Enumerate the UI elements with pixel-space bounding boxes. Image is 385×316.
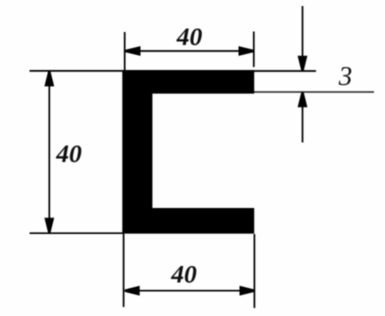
wire: thickness dimension upper leader line [302, 6, 304, 57]
arrowhead: left dimension up arrow [44, 71, 54, 86]
wire: left dimension top extension line [30, 70, 123, 72]
wire: thickness top extension line [254, 70, 316, 72]
wire: left dimension bottom extension line [30, 232, 125, 234]
svg-text:40: 40 [170, 260, 197, 289]
wire: thickness bottom extension line [254, 91, 374, 93]
svg-text:40: 40 [55, 139, 82, 168]
svg-text:3: 3 [338, 61, 353, 91]
arrowhead: left dimension down arrow [44, 218, 54, 233]
wire: bottom dimension left extension line [123, 234, 125, 307]
wire: top dimension right extension line [253, 32, 255, 68]
wire: top dimension line [126, 50, 253, 52]
wire: thickness dimension lower leader line [302, 106, 304, 143]
arrowhead: thickness down arrow [298, 56, 308, 71]
arrowhead: bottom dimension left arrow [125, 286, 140, 296]
wire: bottom dimension right extension line [253, 234, 255, 308]
arrowhead: thickness up arrow [298, 92, 308, 107]
wire: left dimension line [48, 72, 50, 232]
wire: top dimension left extension line [124, 32, 126, 70]
channel profile: black C-section 40x40x3 [122, 70, 254, 234]
svg-text:40: 40 [176, 22, 203, 51]
arrowhead: top dimension right arrow [239, 46, 254, 56]
arrowhead: bottom dimension right arrow [240, 286, 255, 296]
wire: bottom dimension line [125, 290, 254, 292]
arrowhead: top dimension left arrow [125, 46, 140, 56]
